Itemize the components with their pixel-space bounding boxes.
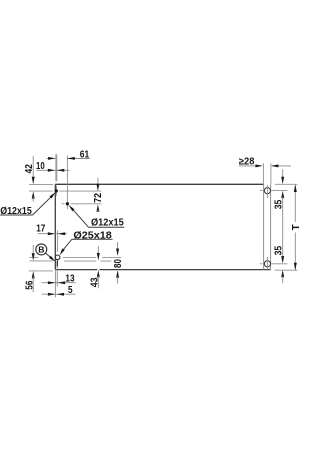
dim ge28 arrow left (271, 164, 278, 167)
panel top edge (55, 183, 263, 185)
dim 61 arrow left outside (48, 157, 55, 160)
svg-text:B: B (38, 245, 44, 255)
svg-text:43: 43 (89, 277, 100, 287)
label O12x15 right leader arrow (69, 205, 75, 211)
panel bottom edge (55, 269, 270, 271)
svg-text:61: 61 (80, 150, 90, 161)
dim 35 bottom arrow up (281, 270, 284, 277)
svg-text:56: 56 (24, 280, 35, 290)
dim ge28 ext line right (270, 163, 272, 184)
dim 17 arrow right (48, 232, 55, 235)
dim 56 line upper (32, 245, 34, 255)
ext line hole1 level right (59, 190, 101, 192)
label O12x15 right leader (73, 210, 88, 227)
hole C2 vertical mark (266, 257, 268, 270)
label O25x18 leader arrow (60, 248, 65, 255)
dim 80 line upper (117, 242, 119, 250)
svg-text:72: 72 (93, 192, 104, 202)
right strip inner line (263, 184, 265, 269)
dim 43 arrow down (97, 253, 100, 260)
hole C1 left tick (260, 189, 263, 191)
svg-text:17: 17 (36, 224, 46, 235)
label B leader (46, 253, 51, 257)
svg-text:35: 35 (274, 245, 285, 255)
panel left edge (54, 184, 56, 269)
ext line top edge right (275, 183, 298, 185)
ext line bottom-panel level left (30, 260, 54, 262)
dim 61 line right (67, 158, 89, 160)
dim 17 arrow left (58, 232, 65, 235)
dim 80 arrow up (116, 270, 119, 277)
svg-text:≥28: ≥28 (239, 156, 255, 167)
hole C2 left tick (260, 263, 263, 265)
dim T arrow up (294, 185, 297, 192)
dim 5 arrow right (48, 293, 55, 296)
hole2 left tick (62, 203, 65, 205)
label O25x18 leader (64, 239, 72, 249)
dim 35 top line upper (282, 169, 284, 178)
ext line hole3 x up (57, 231, 59, 253)
dim 56 arrow down (32, 253, 35, 260)
dim 43 line lower (97, 276, 99, 288)
dim 13 arrow left (58, 281, 65, 284)
hole1 vertical tick (56, 186, 58, 196)
dim T line upper (294, 185, 296, 222)
dim 13 arrow right (48, 281, 55, 284)
dim 35 top arrow up (281, 191, 284, 198)
hole A1 dot (55, 189, 58, 192)
hole C2 circle (264, 261, 270, 267)
dim 80 arrow down (116, 249, 119, 256)
dim 61 arrow right outside (67, 157, 74, 160)
dim 72 line upper (97, 178, 99, 185)
svg-text:13: 13 (65, 273, 75, 284)
dim 56 arrow up (32, 271, 35, 278)
svg-text:10: 10 (36, 161, 45, 172)
dim 42 arrow up (32, 191, 35, 198)
ext line bottom edge left (29, 270, 53, 272)
label B circle (36, 244, 47, 255)
svg-text:5: 5 (68, 285, 73, 296)
dim 42 arrow down (32, 177, 35, 184)
ext line hole1 level left (29, 190, 53, 192)
dim 10 arrow right (48, 169, 55, 172)
dim 43 line upper (97, 246, 99, 254)
dim 72 arrow down (96, 184, 99, 191)
dim 35 bottom arrow down (281, 256, 284, 263)
ext line bottom edge right (275, 269, 298, 271)
dim 10 arrow left (57, 169, 64, 172)
label B leader arrow (49, 256, 55, 262)
svg-text:42: 42 (24, 164, 35, 174)
hole C1 level ext right (271, 189, 287, 191)
svg-text:80: 80 (113, 259, 124, 268)
label O25x18 underline (72, 238, 113, 240)
dim 42 line upper (32, 156, 34, 179)
dim 10 line (36, 169, 69, 171)
dim 56 line lower (32, 277, 34, 293)
ext line hole2 x (66, 155, 68, 209)
dim 42 line lower (32, 197, 34, 202)
label O12x15 left underline (0, 214, 32, 216)
svg-text:T: T (291, 224, 300, 230)
dim 17 line (38, 233, 67, 235)
dim T arrow down (294, 263, 297, 270)
hole C2 level ext right (271, 263, 287, 265)
hole3 bottom tick (56, 260, 58, 266)
dim ge28 ext line left (262, 163, 264, 184)
dim 5 arrow left (57, 293, 64, 296)
ext line hole3 x down (56, 267, 58, 287)
dim ge28 line right (272, 165, 291, 167)
label O12x15 right underline (89, 226, 125, 228)
ext line hole3 level right (63, 256, 121, 258)
dim 72 line lower (97, 210, 99, 212)
dim 80 line lower (117, 277, 119, 284)
dim 35 middle line (282, 197, 284, 258)
panel right edge (270, 184, 272, 269)
ext line hole3 level left (30, 256, 39, 258)
dim 43 arrow up (97, 270, 100, 277)
ext line panel edge down (55, 270, 57, 298)
ext line panel edge and hole1 x up (55, 154, 57, 181)
ext line top edge left (29, 183, 53, 185)
dim 61 line left (47, 158, 56, 160)
hole A2 dot (66, 202, 69, 205)
ext line bottom-panel level right (64, 260, 111, 262)
dim 35 top arrow down (281, 177, 284, 184)
hole B circle (55, 255, 60, 260)
hole C1 circle (264, 188, 270, 194)
dim 13 line (42, 282, 76, 284)
svg-text:35: 35 (274, 199, 285, 209)
dim T line lower (294, 233, 296, 271)
dim ge28 arrow right (255, 164, 262, 167)
dim 72 arrow up (96, 204, 99, 211)
ext line hole2 level right (71, 203, 102, 205)
dim 35 bottom line lower (282, 277, 284, 284)
label O12x15 left leader arrow (49, 192, 55, 198)
label O12x15 left leader (33, 197, 51, 215)
dim ge28 line left (239, 165, 256, 167)
dim 5 line (42, 293, 76, 295)
hole C1 vertical mark (266, 185, 268, 198)
